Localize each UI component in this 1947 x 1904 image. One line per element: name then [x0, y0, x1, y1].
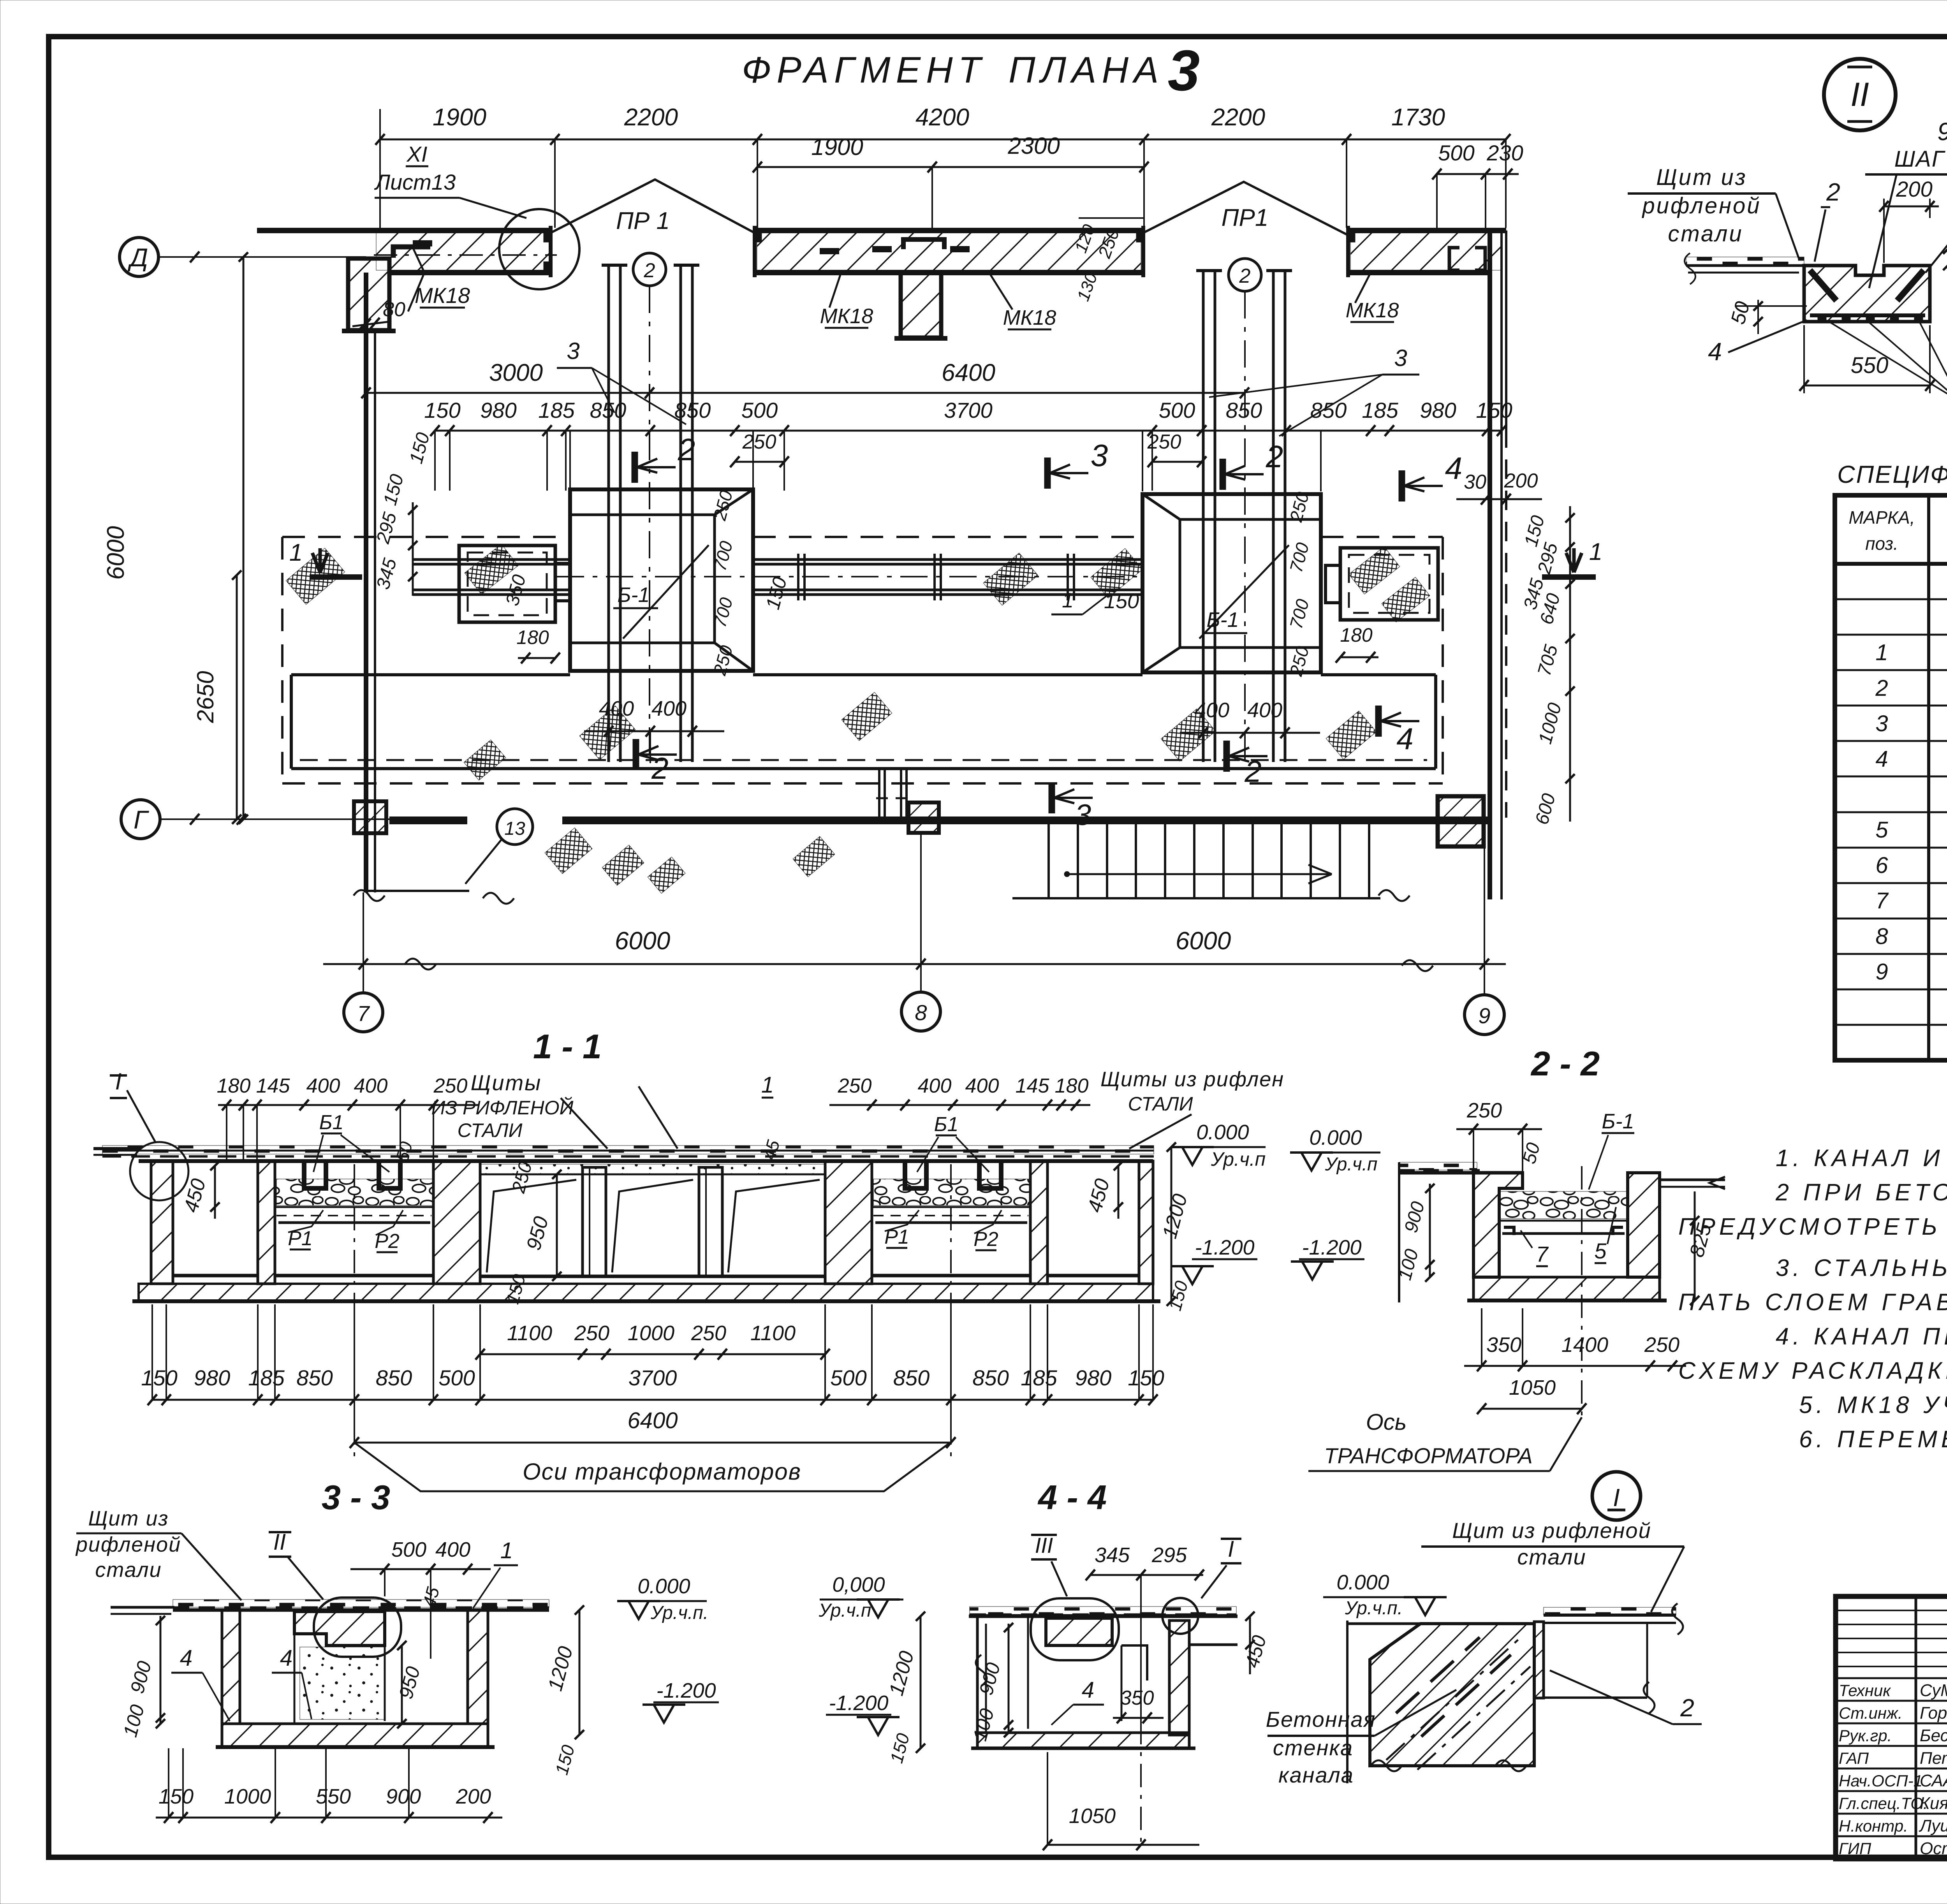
- svg-text:980: 980: [1420, 398, 1456, 422]
- svg-text:180: 180: [217, 1075, 251, 1097]
- svg-text:3700: 3700: [944, 398, 993, 422]
- canal beams horizontal: [753, 558, 1142, 561]
- column at Д x7: [348, 259, 389, 330]
- svg-text:250: 250: [1147, 431, 1181, 453]
- wall C bracket mark: [1449, 248, 1485, 270]
- svg-text:3: 3: [567, 338, 579, 364]
- svg-text:Б-1: Б-1: [1602, 1110, 1634, 1133]
- svg-text:250: 250: [433, 1075, 468, 1097]
- svg-text:3: 3: [1168, 39, 1200, 103]
- svg-text:2300: 2300: [1007, 133, 1060, 159]
- svg-text:250: 250: [1466, 1099, 1502, 1122]
- plan dim row2 right: [1437, 173, 1519, 175]
- break squiggles bottom wall: [483, 893, 514, 904]
- svg-text:СПЕЦИФИКАЦИЯ ЭЛЕМЕНТОВ К ФР: СПЕЦИФИКАЦИЯ ЭЛЕМЕНТОВ К ФРАГМЕНТУ ПЛЛНА…: [1837, 461, 1947, 488]
- stairs: [1012, 897, 1380, 899]
- plan left dim 2650: [236, 575, 238, 819]
- svg-text:Ур.ч.п.: Ур.ч.п.: [1345, 1598, 1403, 1619]
- svg-text:Ур.ч.п: Ур.ч.п: [1325, 1154, 1378, 1175]
- svg-text:3 - 3: 3 - 3: [322, 1478, 390, 1517]
- 4-4 small circle detail: [1162, 1598, 1198, 1634]
- svg-text:200: 200: [1504, 470, 1538, 492]
- svg-text:стали: стали: [95, 1558, 162, 1582]
- svg-text:1: 1: [761, 1072, 774, 1098]
- svg-text:Осташевский: Осташевский: [1920, 1839, 1947, 1858]
- center duct: [878, 769, 880, 817]
- svg-text:1000: 1000: [224, 1785, 271, 1808]
- beam pair 2 right: [1272, 271, 1275, 762]
- 1-1 ground top line: [139, 1159, 1153, 1163]
- 3-3 walls: [222, 1610, 240, 1724]
- svg-text:Рук.гр.: Рук.гр.: [1839, 1726, 1892, 1745]
- svg-text:500: 500: [438, 1366, 475, 1390]
- svg-text:3: 3: [1394, 345, 1407, 371]
- svg-text:Ст.инж.: Ст.инж.: [1839, 1704, 1903, 1722]
- svg-text:1100: 1100: [750, 1322, 796, 1345]
- detail I circle: [1592, 1472, 1641, 1520]
- svg-text:200: 200: [1896, 177, 1932, 201]
- svg-text:6400: 6400: [942, 359, 995, 386]
- title block outer: [1836, 1596, 1947, 1859]
- svg-text:Б1: Б1: [934, 1113, 959, 1136]
- svg-text:Ур.ч.п: Ур.ч.п: [819, 1600, 871, 1621]
- svg-text:Бескоровайный: Бескоровайный: [1920, 1726, 1947, 1745]
- svg-text:1 - 1: 1 - 1: [533, 1027, 602, 1066]
- svg-text:СХЕМУ РАСКЛАДКИ ЩИТОВ СМ НА ЛИ: СХЕМУ РАСКЛАДКИ ЩИТОВ СМ НА ЛИСТЕ ТП904-…: [1678, 1357, 1947, 1384]
- 1-1 gravel fill right: [873, 1179, 1029, 1205]
- svg-text:СТАЛИ: СТАЛИ: [1128, 1093, 1193, 1115]
- svg-text:МК18: МК18: [1346, 299, 1399, 322]
- 1-1 canal divider walls: [583, 1167, 606, 1276]
- svg-text:7: 7: [1875, 888, 1889, 913]
- ground hatch patch: [579, 706, 635, 760]
- 1-1 detail I circle at left end: [130, 1142, 188, 1200]
- svg-text:400: 400: [1247, 699, 1282, 722]
- svg-text:1400: 1400: [1561, 1333, 1608, 1357]
- svg-text:185: 185: [538, 398, 575, 422]
- axis 8 circle: [920, 834, 922, 992]
- canal beam cross ties: [797, 554, 799, 600]
- svg-text:850: 850: [590, 398, 626, 422]
- section flag 2 (upper right): [1220, 459, 1226, 490]
- svg-text:ШАГ 200: ШАГ 200: [1894, 146, 1947, 172]
- svg-text:4: 4: [1082, 1677, 1094, 1703]
- svg-text:II: II: [1850, 76, 1869, 113]
- wall A inner step MK18 anchor: [393, 247, 430, 258]
- svg-text:250: 250: [742, 431, 776, 453]
- column at Д x8: [901, 273, 941, 338]
- svg-text:стали: стали: [1668, 221, 1743, 246]
- svg-text:Б1: Б1: [319, 1111, 344, 1134]
- svg-text:5: 5: [1594, 1239, 1607, 1263]
- ground hatch patch: [1161, 709, 1216, 761]
- svg-text:850: 850: [296, 1366, 333, 1390]
- wall segment B (axis Д, center): [757, 233, 1141, 270]
- svg-text:500: 500: [391, 1538, 426, 1561]
- svg-text:1100: 1100: [507, 1322, 552, 1345]
- svg-text:80: 80: [383, 298, 405, 321]
- beam pair 1 right: [680, 265, 682, 762]
- section flag 2 (lower left): [633, 739, 639, 770]
- svg-text:2: 2: [1680, 1694, 1694, 1722]
- svg-text:250: 250: [574, 1322, 609, 1345]
- svg-text:ПРЕДУСМОТРЕТЬ УСТАНОВКУ ЗАКЛ: ПРЕДУСМОТРЕТЬ УСТАНОВКУ ЗАКЛАДНЫХ ЭЛЕМЕН…: [1678, 1213, 1947, 1240]
- svg-text:230: 230: [1486, 141, 1523, 165]
- 4-4 axis dash-dot: [1140, 1721, 1142, 1842]
- title block left signature grid: [1915, 1596, 1917, 1859]
- svg-text:МК18: МК18: [1003, 306, 1056, 329]
- axis circle 2 (second): [1229, 259, 1261, 291]
- svg-text:6000: 6000: [102, 526, 129, 580]
- svg-text:Гл.спец.ТО.: Гл.спец.ТО.: [1839, 1794, 1928, 1812]
- axis Д circle: [120, 238, 158, 276]
- section flag 3 (upper center): [1044, 458, 1051, 489]
- axis Г wall bars: [389, 817, 467, 824]
- svg-text:4: 4: [280, 1645, 292, 1671]
- detail circle XI: [499, 209, 579, 289]
- svg-text:Нач.ОСП-1: Нач.ОСП-1: [1839, 1772, 1922, 1790]
- svg-text:ГИП: ГИП: [1839, 1839, 1871, 1858]
- svg-text:4200: 4200: [915, 104, 969, 131]
- svg-text:МК18: МК18: [415, 283, 470, 308]
- svg-text:9: 9: [1478, 1003, 1490, 1028]
- right pit box: [1340, 548, 1438, 620]
- section flag 4 (upper far right): [1399, 470, 1405, 502]
- svg-text:Щиты из рифлен: Щиты из рифлен: [1100, 1068, 1284, 1091]
- 3-3 bottom slab: [222, 1724, 488, 1747]
- svg-text:I: I: [1613, 1483, 1620, 1512]
- svg-text:1000: 1000: [628, 1322, 674, 1345]
- plan dim row1 line: [380, 139, 1506, 141]
- 2-2 top surface: [1399, 1162, 1477, 1170]
- svg-text:400: 400: [651, 697, 687, 720]
- Б-1 box left: [570, 489, 753, 671]
- svg-text:XI: XI: [406, 142, 428, 166]
- svg-text:4 - 4: 4 - 4: [1037, 1478, 1107, 1517]
- svg-text:канала: канала: [1278, 1763, 1354, 1787]
- plan dim row3 3000 6400: [366, 392, 1245, 394]
- svg-text:рифленой: рифленой: [75, 1533, 181, 1556]
- svg-text:500: 500: [1159, 398, 1195, 422]
- svg-text:Горская: Горская: [1920, 1703, 1947, 1723]
- plan bottom dims 6000 6000: [323, 963, 1506, 965]
- section flag 4 (lower right): [1375, 706, 1382, 737]
- svg-text:145: 145: [256, 1075, 290, 1097]
- svg-text:30: 30: [1464, 471, 1486, 493]
- gable over opening 1: [551, 179, 759, 235]
- svg-text:400: 400: [354, 1075, 388, 1097]
- svg-text:7: 7: [1536, 1242, 1549, 1266]
- svg-text:4: 4: [180, 1645, 192, 1671]
- svg-text:400: 400: [306, 1075, 340, 1097]
- svg-text:250: 250: [691, 1322, 726, 1345]
- svg-text:13: 13: [504, 818, 525, 839]
- axis Д line: [158, 256, 366, 258]
- svg-text:980: 980: [480, 398, 516, 422]
- svg-text:500: 500: [741, 398, 778, 422]
- column Г x9: [1438, 796, 1484, 846]
- detail II node circle: [1824, 59, 1896, 130]
- left pit box: [459, 546, 555, 622]
- svg-text:400: 400: [1194, 699, 1229, 722]
- ground hatch patch: [983, 553, 1038, 605]
- svg-text:400: 400: [435, 1538, 470, 1561]
- plan dim row4 chain: [435, 430, 1502, 432]
- wall B MK18 anchors: [820, 248, 839, 254]
- svg-text:185: 185: [248, 1366, 285, 1390]
- svg-text:1900: 1900: [811, 134, 863, 160]
- svg-text:Д: Д: [127, 243, 148, 272]
- svg-text:850: 850: [1226, 398, 1262, 422]
- ground hatch patch: [1091, 549, 1142, 598]
- svg-text:1050: 1050: [1509, 1376, 1556, 1399]
- svg-text:185: 185: [1021, 1366, 1057, 1390]
- svg-text:-1.200: -1.200: [1302, 1236, 1361, 1259]
- svg-text:400: 400: [918, 1075, 952, 1097]
- axis 7 circle: [363, 892, 364, 993]
- svg-text:400: 400: [965, 1075, 999, 1097]
- svg-text:980: 980: [194, 1366, 230, 1390]
- svg-text:Ур.ч.п: Ур.ч.п: [1211, 1148, 1266, 1170]
- svg-text:ПР 1: ПР 1: [616, 208, 670, 234]
- 4-4 top plate strip: [970, 1607, 1236, 1614]
- svg-text:3. СТАЛЬНЫЕ РЕШЕТКИ В МАСЛОСБО: 3. СТАЛЬНЫЕ РЕШЕТКИ В МАСЛОСБОРНЫХ ЯМАХ …: [1776, 1255, 1947, 1281]
- svg-text:250: 250: [1644, 1333, 1679, 1357]
- spec table grid: [1835, 495, 1947, 1060]
- 4-4 right wall hatched: [1169, 1621, 1189, 1735]
- svg-text:6400: 6400: [627, 1408, 678, 1433]
- detail I bottom break: [1371, 1760, 1402, 1771]
- svg-text:СААКЬЯНЦ: СААКЬЯНЦ: [1920, 1771, 1947, 1790]
- svg-text:-1.200: -1.200: [656, 1679, 716, 1702]
- svg-text:150: 150: [1476, 398, 1512, 422]
- svg-text:Р1: Р1: [288, 1227, 313, 1250]
- svg-text:Оси трансформаторов: Оси трансформаторов: [523, 1459, 801, 1485]
- ground hatch patch: [464, 740, 506, 780]
- 1-1 beam stubs Б1: [304, 1161, 326, 1188]
- 2-2 gravel: [1500, 1191, 1628, 1219]
- svg-text:250: 250: [838, 1075, 872, 1097]
- svg-text:ГАП: ГАП: [1839, 1749, 1869, 1767]
- svg-text:рифленой: рифленой: [1641, 193, 1761, 218]
- svg-text:СуМАН: СуМАН: [1920, 1681, 1947, 1700]
- svg-text:1. КАНАЛ И ПРИЯМКИ ВЫПОЛНИТЬ И: 1. КАНАЛ И ПРИЯМКИ ВЫПОЛНИТЬ ИЗ БЕТОНА М…: [1776, 1145, 1947, 1171]
- svg-text:5. МК18 УЧТЕНЫ В СПЕЦИФИКАЦИИ: 5. МК18 УЧТЕНЫ В СПЕЦИФИКАЦИИ НА ЛИСТЕ 1…: [1799, 1392, 1947, 1418]
- svg-text:180: 180: [516, 626, 549, 648]
- column Г x8: [908, 802, 939, 833]
- ground hatch patch: [841, 692, 892, 741]
- svg-text:200: 200: [456, 1785, 491, 1808]
- svg-text:850: 850: [893, 1366, 929, 1390]
- svg-text:2: 2: [1826, 178, 1840, 206]
- 2-2 bottom slab: [1473, 1277, 1660, 1300]
- section flag 3 (stairs): [1049, 782, 1055, 813]
- svg-text:1: 1: [1589, 538, 1602, 565]
- ground hatch patch: [286, 548, 345, 605]
- svg-text:Б-1: Б-1: [1206, 608, 1239, 632]
- svg-text:0,000: 0,000: [832, 1573, 885, 1596]
- 3-3 sand dotted area: [300, 1647, 384, 1719]
- left wall (axis 7) vertical: [364, 273, 368, 892]
- svg-text:2: 2: [644, 259, 655, 282]
- svg-text:850: 850: [1310, 398, 1347, 422]
- svg-text:ИЗ РИФЛЕНОЙ: ИЗ РИФЛЕНОЙ: [431, 1097, 574, 1119]
- 1-1 transformer axes dash-dot: [354, 1164, 355, 1456]
- svg-text:Щит из: Щит из: [1656, 165, 1747, 190]
- svg-text:345: 345: [1095, 1543, 1130, 1567]
- Б-1 box right: [1142, 494, 1321, 672]
- svg-text:Петровский: Петровский: [1920, 1749, 1947, 1768]
- svg-text:500: 500: [830, 1366, 866, 1390]
- 3-3 top plate strip: [173, 1600, 549, 1607]
- svg-text:-1.200: -1.200: [1195, 1236, 1254, 1259]
- svg-text:180: 180: [1055, 1075, 1089, 1097]
- svg-text:0.000: 0.000: [637, 1575, 690, 1598]
- 4-4 pit left wall: [976, 1616, 979, 1733]
- svg-text:1: 1: [289, 539, 303, 566]
- detail I concrete wall block: [1370, 1624, 1534, 1766]
- svg-text:стенка: стенка: [1273, 1735, 1353, 1760]
- svg-text:180: 180: [1340, 624, 1373, 646]
- detail II concrete curb block: [1804, 266, 1930, 322]
- svg-text:I: I: [1228, 1536, 1234, 1562]
- svg-text:2: 2: [1875, 676, 1888, 701]
- svg-text:900: 900: [386, 1785, 421, 1808]
- svg-text:4: 4: [1396, 721, 1413, 756]
- detail I right plates: [1544, 1607, 1676, 1615]
- svg-text:350: 350: [1486, 1333, 1521, 1357]
- svg-text:1900: 1900: [433, 104, 486, 131]
- axis 9 circle: [1484, 848, 1485, 995]
- svg-text:2650: 2650: [192, 671, 218, 723]
- svg-text:6: 6: [1875, 853, 1888, 878]
- svg-text:Щит из: Щит из: [88, 1507, 169, 1530]
- svg-text:850: 850: [674, 398, 711, 422]
- svg-text:ФРАГМЕНТ: ФРАГМЕНТ: [742, 49, 986, 91]
- svg-text:4: 4: [1875, 746, 1888, 772]
- svg-text:Б-1: Б-1: [617, 583, 650, 607]
- svg-text:ПЛАНА: ПЛАНА: [1009, 49, 1164, 91]
- svg-text:8: 8: [915, 1000, 927, 1025]
- svg-text:1: 1: [1875, 640, 1888, 665]
- svg-text:1: 1: [1062, 589, 1074, 612]
- svg-text:Р1: Р1: [884, 1226, 909, 1248]
- 1-1 canal fold diagonals: [487, 1180, 576, 1272]
- 3-3 inner curb block + oval: [294, 1612, 385, 1645]
- svg-text:4. КАНАЛ ПЕРЕКРЫТЬ ЩИТАМИ ИЗ: 4. КАНАЛ ПЕРЕКРЫТЬ ЩИТАМИ ИЗ РИФЛЕНОЙ СТ…: [1776, 1323, 1947, 1350]
- column Г x7: [354, 801, 386, 833]
- right wall (axis 9) vertical: [1488, 233, 1492, 899]
- detail II bottom rebar with stirrups: [1810, 313, 1925, 317]
- svg-text:ПР1: ПР1: [1222, 204, 1269, 231]
- svg-text:-1.200: -1.200: [829, 1691, 888, 1715]
- 1-1 walls hatched: [151, 1161, 173, 1284]
- svg-text:Ось: Ось: [1366, 1410, 1407, 1435]
- svg-text:1050: 1050: [1069, 1804, 1116, 1828]
- plan dim row2 left: [757, 166, 1144, 168]
- svg-text:Щиты: Щиты: [471, 1070, 542, 1095]
- section flag 2 (upper left): [632, 452, 638, 483]
- svg-text:185: 185: [1362, 398, 1398, 422]
- beam pair 1 left: [607, 265, 610, 762]
- detail I steel angle: [1534, 1622, 1544, 1698]
- axis circle 2 (first): [633, 253, 666, 286]
- svg-text:2200: 2200: [1211, 104, 1265, 131]
- svg-text:Бетонная: Бетонная: [1266, 1707, 1376, 1732]
- lower hatch patches near duct: [545, 828, 592, 874]
- 1-1 gravel fill left: [276, 1179, 432, 1205]
- svg-text:850: 850: [376, 1366, 412, 1390]
- svg-text:150: 150: [141, 1366, 177, 1390]
- plan left dim 6000: [243, 257, 245, 819]
- 1-1 top checkered plate strip: [102, 1146, 1154, 1154]
- svg-text:6000: 6000: [615, 927, 671, 955]
- 1-1 bottom slab hatched: [139, 1284, 1153, 1301]
- svg-text:550: 550: [1851, 353, 1889, 378]
- svg-text:3700: 3700: [628, 1366, 677, 1390]
- 1-1 canal concrete screed dotted: [480, 1164, 825, 1174]
- svg-text:850: 850: [972, 1366, 1009, 1390]
- axis Г circle: [121, 800, 160, 839]
- svg-text:2: 2: [1244, 754, 1261, 788]
- svg-text:3: 3: [1091, 438, 1108, 473]
- svg-text:III: III: [1035, 1533, 1053, 1557]
- svg-text:150: 150: [158, 1785, 194, 1808]
- svg-text:9: 9: [1937, 118, 1947, 146]
- svg-text:550: 550: [316, 1785, 351, 1808]
- svg-text:Н.контр.: Н.контр.: [1839, 1817, 1908, 1835]
- svg-text:2 - 2: 2 - 2: [1530, 1044, 1600, 1083]
- detail II dim 200: [1884, 206, 1939, 208]
- svg-text:ПАТЬ СЛОЕМ ГРАВИЯ ТОЛЩИНОЙ 250: ПАТЬ СЛОЕМ ГРАВИЯ ТОЛЩИНОЙ 250мм,КРУПНОС…: [1678, 1288, 1947, 1315]
- svg-text:1: 1: [500, 1538, 513, 1563]
- svg-text:2: 2: [651, 751, 668, 785]
- svg-text:145: 145: [1016, 1075, 1050, 1097]
- svg-text:Щит из рифленой: Щит из рифленой: [1452, 1518, 1651, 1543]
- ground hatch patch: [1326, 711, 1376, 759]
- svg-text:2: 2: [1239, 265, 1251, 287]
- beam pair 2 left: [1202, 271, 1205, 762]
- wall segment A (axis Д, left): [376, 233, 551, 270]
- svg-text:0.000: 0.000: [1309, 1126, 1362, 1149]
- svg-text:6000: 6000: [1176, 927, 1231, 955]
- detail II anchor diagonals: [1810, 270, 1836, 301]
- node circle 13: [497, 809, 533, 845]
- detail I dash-dot formwork lines: [1386, 1639, 1519, 1760]
- svg-text:1730: 1730: [1391, 104, 1445, 131]
- 4-4 inner lines: [1027, 1616, 1029, 1729]
- platform dashed outline: [282, 536, 570, 538]
- 4-4 bottom slab: [977, 1733, 1189, 1748]
- svg-text:Луценко: Луценко: [1919, 1816, 1947, 1835]
- svg-text:5: 5: [1875, 817, 1888, 843]
- svg-text:3000: 3000: [489, 359, 543, 386]
- svg-text:Лист13: Лист13: [374, 170, 456, 194]
- svg-text:2: 2: [1266, 439, 1283, 474]
- svg-text:Кияшко: Кияшко: [1920, 1794, 1947, 1813]
- svg-text:500: 500: [1438, 141, 1474, 165]
- 2-2 pit walls hatched: [1473, 1173, 1523, 1277]
- svg-text:8: 8: [1875, 924, 1888, 949]
- svg-text:Техник: Техник: [1839, 1681, 1891, 1700]
- svg-text:2: 2: [678, 432, 695, 467]
- svg-text:СТАЛИ: СТАЛИ: [458, 1119, 523, 1141]
- svg-text:МАРКА,: МАРКА,: [1848, 507, 1915, 528]
- axis Г line: [160, 818, 389, 820]
- svg-text:4: 4: [1445, 451, 1463, 486]
- svg-text:3: 3: [1075, 799, 1091, 832]
- svg-text:295: 295: [1151, 1543, 1187, 1567]
